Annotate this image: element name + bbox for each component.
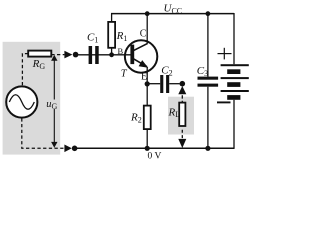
node uG label bbox=[46, 99, 58, 111]
wire: UCC top rail bbox=[111, 13, 234, 15]
node base junction dot bbox=[109, 52, 114, 57]
node C3 top dot bbox=[206, 11, 211, 16]
resistor RL bbox=[168, 95, 186, 138]
wire: generator bottom dashed lead bbox=[22, 118, 65, 148]
svg-text:R1: R1 bbox=[116, 30, 128, 43]
node emitter junction dot bbox=[145, 81, 150, 86]
svg-text:0 V: 0 V bbox=[148, 151, 162, 161]
node C3 bottom dot bbox=[205, 146, 210, 151]
wire: RG right dashed lead bbox=[51, 54, 64, 56]
transistor T (npn) bbox=[125, 40, 157, 72]
wire: emitter lead bbox=[146, 67, 148, 84]
node output terminal dot bbox=[180, 81, 186, 87]
wire: RG left dashed lead bbox=[22, 54, 28, 86]
svg-text:C3: C3 bbox=[197, 65, 208, 78]
svg-text:C1: C1 bbox=[87, 32, 98, 45]
svg-text:B: B bbox=[118, 46, 124, 56]
generator uG (sine source) bbox=[6, 86, 37, 117]
capacitor C2 bbox=[147, 65, 179, 93]
node input ground terminal dot bbox=[72, 146, 78, 152]
wire: 0V bottom rail bbox=[75, 147, 234, 149]
svg-text:C2: C2 bbox=[161, 65, 172, 78]
battery UCC bbox=[221, 13, 249, 149]
resistor R2 bbox=[130, 84, 151, 148]
svg-text:UCC: UCC bbox=[164, 3, 183, 16]
capacitor C3 bbox=[197, 14, 218, 149]
svg-text:C: C bbox=[140, 29, 147, 40]
load box (RL, shaded) bbox=[168, 97, 194, 135]
resistor R1 bbox=[108, 14, 127, 55]
wire: base line bbox=[78, 54, 131, 56]
input ground terminal arrow bbox=[64, 145, 71, 153]
svg-text:T: T bbox=[121, 69, 128, 80]
input terminal arrow bbox=[64, 51, 72, 59]
node input terminal dot bbox=[73, 52, 79, 58]
output terminal arrow (up) bbox=[178, 86, 186, 94]
svg-text:R2: R2 bbox=[130, 112, 142, 125]
source box (generator, shaded) bbox=[3, 42, 61, 155]
capacitor C1 bbox=[87, 32, 99, 65]
battery minus sign bbox=[217, 101, 231, 103]
voltage arrow uG (double headed) bbox=[51, 55, 57, 148]
wire: collector lead bbox=[146, 14, 148, 44]
load ground arrow (down) bbox=[178, 139, 186, 148]
svg-text:E: E bbox=[141, 71, 147, 82]
resistor RG bbox=[28, 51, 51, 71]
node R2 ground dot bbox=[145, 146, 150, 151]
battery plus sign bbox=[218, 48, 232, 60]
node collector rail dot bbox=[145, 11, 150, 16]
